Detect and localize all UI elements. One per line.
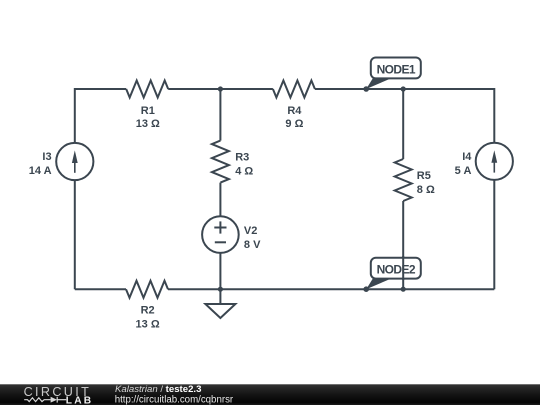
svg-text:13 Ω: 13 Ω [136,118,160,130]
svg-text:R2: R2 [141,305,155,317]
junction node A (R3 top) [218,86,223,91]
wire left vertical upper [74,88,76,143]
node NODE1 flag [363,58,420,92]
wire V2 lower stem [219,253,221,289]
label V2 value [244,225,261,251]
junction R5 top [401,86,406,91]
wire R5 branch upper stem [402,89,404,159]
voltage source V2 [202,216,239,253]
junction ground / bottom [218,287,223,292]
wire R5 stem crossing over NODE2 flag [402,256,404,280]
wire right vertical upper [493,88,495,143]
svg-text:14 A: 14 A [29,165,52,177]
svg-text:13 Ω: 13 Ω [136,319,160,331]
wire R3 branch upper stem [219,89,221,141]
resistor R2 [126,281,168,298]
label R3 value [235,151,253,177]
wire right vertical lower [493,180,495,289]
resistor R1 [126,81,168,98]
CircuitLab logo resistor-diode squiggle [24,397,66,403]
svg-text:R1: R1 [141,105,155,117]
wire bottom: R5 junction to bottom-right corner [403,288,494,290]
ground [205,289,235,318]
svg-text:R5: R5 [417,170,431,182]
label R4 value [285,105,303,130]
wire top: R1 to node A [168,88,220,90]
svg-text:5 A: 5 A [455,165,472,177]
label R1 value [136,105,160,130]
wire top: node A to R4 [220,88,273,90]
svg-text:R4: R4 [287,105,302,117]
current source I3 [56,143,93,180]
wire R5 branch lower stem [402,201,404,289]
svg-text:I4: I4 [462,151,472,163]
svg-text:V2: V2 [244,225,257,237]
label R5 value [417,170,435,196]
wire bottom: R2 to ground junction [168,288,220,290]
wire top-left horizontal [75,88,126,90]
wire R3 to V2 stem [219,183,221,217]
svg-text:NODE1: NODE1 [377,62,416,76]
svg-text:LAB: LAB [66,396,94,405]
wire top: NODE1 dot to R5 junction [366,88,403,90]
current source I4 [476,143,513,180]
svg-text:8 Ω: 8 Ω [417,184,435,196]
svg-text:NODE2: NODE2 [377,263,416,277]
resistor R5 [395,159,412,201]
svg-text:R3: R3 [235,151,249,163]
svg-text:9 Ω: 9 Ω [285,118,303,130]
svg-text:Kalastrian / teste2.3: Kalastrian / teste2.3 [115,384,201,395]
label I3 value [29,151,52,177]
wire top: R5 junction to top-right corner [403,88,494,90]
svg-text:4 Ω: 4 Ω [235,166,253,178]
svg-text:I3: I3 [42,151,51,163]
svg-text:8 V: 8 V [244,239,261,251]
wire bottom: NODE2 dot to R5 junction [366,288,403,290]
wire left vertical lower [74,180,76,289]
wire bottom: left corner to R2 [75,288,126,290]
footer bar [0,384,540,405]
junction R5 bottom [401,287,406,292]
node NODE2 flag [363,258,420,292]
label R2 value [136,305,160,331]
label I4 value [455,151,473,177]
resistor R3 [212,141,229,183]
wire top: R4 to NODE1 dot [315,88,366,90]
resistor R4 [273,81,315,98]
svg-text:http://circuitlab.com/cqbnrsr: http://circuitlab.com/cqbnrsr [115,394,234,405]
wire bottom: ground junction to NODE2 dot [220,288,366,290]
